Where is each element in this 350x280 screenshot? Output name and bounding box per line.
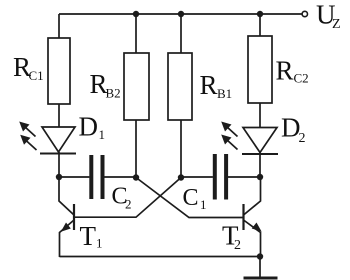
label RB1 bbox=[200, 70, 233, 101]
wire node A to C2 bbox=[59, 176, 89, 178]
light arrow 1 of D2 bbox=[221, 122, 237, 137]
wire rail to RC2 bbox=[259, 14, 261, 36]
label RC2 bbox=[276, 56, 309, 86]
wire cross-coupling node B to T2 base bbox=[136, 178, 244, 218]
wire RC2 to D2 bbox=[259, 103, 261, 127]
resistor RB1 bbox=[168, 53, 192, 120]
wire bottom emitter rail bbox=[60, 256, 261, 258]
svg-text:1: 1 bbox=[96, 236, 103, 251]
label D2 bbox=[281, 113, 306, 147]
wire RC1 to D1 bbox=[58, 104, 60, 127]
label Uz bbox=[316, 0, 341, 32]
svg-text:Z: Z bbox=[332, 17, 341, 32]
svg-text:2: 2 bbox=[234, 238, 241, 253]
light arrow 2 of D2 bbox=[221, 135, 237, 150]
capacitor C1 bbox=[215, 154, 226, 200]
svg-text:B2: B2 bbox=[106, 86, 121, 101]
svg-text:1: 1 bbox=[200, 197, 207, 212]
node C : RB1 / C1 / T1 base link bbox=[178, 174, 184, 180]
svg-text:C: C bbox=[183, 185, 199, 211]
wire RB1 to node C bbox=[180, 120, 182, 177]
transistor T1 bbox=[59, 177, 74, 257]
svg-text:C2: C2 bbox=[294, 71, 309, 86]
node on rail above RC2 bbox=[257, 11, 263, 17]
label C1 bbox=[183, 185, 207, 212]
transistor T2 bbox=[244, 177, 262, 257]
svg-text:R: R bbox=[276, 56, 294, 86]
resistor RB2 bbox=[124, 53, 149, 120]
resistor RC2 bbox=[248, 36, 272, 103]
wire top supply rail bbox=[59, 13, 302, 15]
svg-text:C1: C1 bbox=[29, 68, 44, 83]
node on rail above RB1 bbox=[178, 11, 184, 17]
svg-text:2: 2 bbox=[125, 197, 132, 212]
node on rail above RB2 bbox=[133, 11, 139, 17]
wire node C to C1 bbox=[181, 176, 213, 178]
node B : RB2 / C2 / T2 base link bbox=[133, 174, 139, 180]
wire rail to RB2 bbox=[135, 14, 137, 53]
LED D1 bbox=[40, 127, 76, 154]
wire D1 to node A bbox=[58, 152, 60, 177]
label RB2 bbox=[90, 69, 121, 101]
svg-text:R: R bbox=[200, 70, 218, 100]
svg-text:B1: B1 bbox=[217, 86, 232, 101]
wire rail to RC1 bbox=[58, 14, 60, 38]
LED D2 bbox=[242, 128, 278, 155]
wire C1 to node D bbox=[228, 176, 260, 178]
label D1 bbox=[79, 112, 106, 143]
svg-text:1: 1 bbox=[99, 127, 106, 142]
wire RB2 to node B bbox=[135, 120, 137, 177]
label C2 bbox=[112, 184, 132, 212]
label T1 bbox=[80, 221, 103, 251]
ground bbox=[244, 277, 278, 280]
resistor RC1 bbox=[48, 38, 70, 104]
node E : emitter rail to ground bbox=[257, 253, 263, 259]
svg-text:D: D bbox=[79, 112, 99, 142]
wire C2 to node B bbox=[104, 176, 136, 178]
svg-text:T: T bbox=[80, 221, 97, 251]
label RC1 bbox=[13, 52, 44, 83]
light arrow 2 of D1 bbox=[20, 135, 36, 150]
wire D2 to node D bbox=[259, 153, 261, 178]
capacitor C2 bbox=[91, 155, 102, 199]
svg-text:2: 2 bbox=[299, 131, 306, 146]
wire node E to ground bbox=[259, 257, 261, 277]
wire cross-coupling node C to T1 base bbox=[74, 178, 181, 218]
light arrow 1 of D1 bbox=[19, 122, 35, 137]
wire rail to RB1 bbox=[180, 14, 182, 53]
node A : D1 cathode / C2 / T1 collector bbox=[56, 174, 62, 180]
node D : D2 cathode / C1 / T2 collector bbox=[257, 174, 263, 180]
label T2 bbox=[222, 221, 241, 254]
terminal Uz bbox=[302, 11, 307, 16]
